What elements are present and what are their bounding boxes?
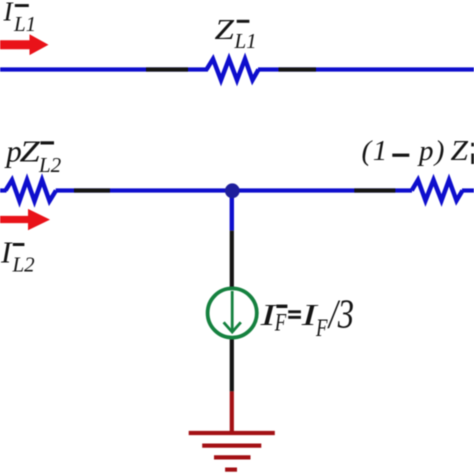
- wire top line right segment: [258, 67, 474, 71]
- svg-text:): ): [433, 135, 445, 167]
- resistor (1-p)ZL2: [412, 180, 463, 201]
- label ZL1: [215, 14, 257, 53]
- label (1-p)ZL2: [362, 135, 474, 167]
- svg-text:Z: Z: [215, 14, 236, 46]
- wire top line left segment: [0, 67, 208, 71]
- wire vertical black to current source: [230, 231, 234, 287]
- svg-text:p: p: [417, 135, 434, 167]
- label pZL2: [4, 133, 61, 177]
- wire black lead left of R1: [146, 67, 188, 71]
- wire line2 from node to right resistor: [232, 188, 412, 192]
- svg-text:I: I: [0, 234, 13, 269]
- label IL1 current: [3, 0, 37, 36]
- wire line2 from pZL2 to node: [56, 188, 232, 192]
- ground: [189, 433, 275, 470]
- wire line2 right edge stub: [462, 188, 474, 192]
- wire line2 left stub: [0, 188, 7, 192]
- svg-text:F: F: [274, 310, 287, 337]
- node junction: [225, 183, 240, 198]
- resistor ZL1: [207, 59, 259, 80]
- svg-text:Z: Z: [451, 135, 469, 167]
- svg-text:F: F: [315, 315, 328, 342]
- svg-text:Z: Z: [20, 133, 41, 168]
- wire black lead right of pZL2: [74, 188, 110, 192]
- svg-text:L1: L1: [234, 29, 257, 53]
- label IF = IF/3: [259, 290, 354, 342]
- wire black lead right of R1: [279, 67, 317, 71]
- svg-text:L2: L2: [38, 153, 62, 177]
- arrow IL2 red: [0, 209, 50, 230]
- svg-text:/3: /3: [327, 290, 354, 336]
- svg-text:L1: L1: [13, 12, 36, 36]
- wire vertical black below current source: [230, 339, 234, 391]
- wire vertical blue stub below node: [230, 191, 234, 231]
- svg-text:L2: L2: [12, 253, 36, 277]
- wire vertical dark red to ground: [230, 391, 234, 433]
- label IL2 current: [0, 234, 35, 276]
- wire black lead left of (1-p)ZL2: [354, 188, 395, 192]
- resistor pZL2: [6, 180, 57, 201]
- arrow IL1 red: [0, 34, 49, 55]
- current source IF arrow: [224, 291, 241, 332]
- svg-text:1: 1: [373, 135, 388, 167]
- current source IF circle: [208, 288, 257, 337]
